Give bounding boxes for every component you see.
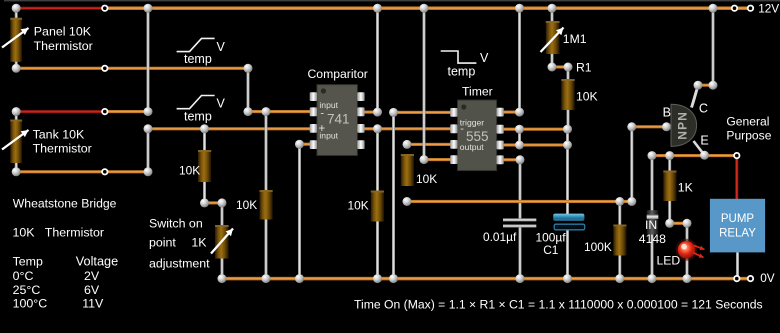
svg-text:11V: 11V <box>82 297 104 311</box>
junction base drive row <box>627 197 636 206</box>
svg-text:0.01µf: 0.01µf <box>483 230 517 244</box>
wire diode 4148 bottom lead to 0V rail <box>651 235 654 279</box>
svg-text:Wheatstone Bridge: Wheatstone Bridge <box>13 196 117 210</box>
resistor R1 10K <box>561 79 574 110</box>
terminal panel bottom <box>102 66 107 71</box>
wire +12V top rail <box>107 6 752 10</box>
wire 1K R8 top lead <box>668 156 671 171</box>
svg-text:Time On (Max) = 1.1 × R1 × C1: Time On (Max) = 1.1 × R1 × C1 = 1.1 x 11… <box>354 297 763 311</box>
relay K1 labels <box>719 213 756 240</box>
op-amp U1 pins right <box>357 92 364 149</box>
junction collector jog <box>694 81 703 90</box>
wire +12V rail red segment from panel thermistor to terminal <box>16 7 103 10</box>
wire base drive drop from y201 row <box>630 127 633 202</box>
wire 741 non-inverting input row <box>148 127 311 130</box>
svg-text:V: V <box>480 51 489 65</box>
junction 741 pin4 <box>295 140 304 149</box>
wire 555 pin1 ground stub <box>394 111 451 114</box>
junction 555 pin7 tie <box>515 125 524 134</box>
capacitor C1 100uf lower shell <box>554 224 585 230</box>
svg-text:point: point <box>149 235 176 249</box>
LED light arrows <box>694 246 705 251</box>
wire emitter row to relay terminal <box>652 154 734 157</box>
wire 1K pot jog <box>205 201 223 204</box>
resistor R4 10K (inverting divider) <box>260 190 273 220</box>
wire tank bottom riser to 741 + input row <box>147 129 150 172</box>
svg-text:Panel 10K: Panel 10K <box>34 25 92 39</box>
wire relay top red lead <box>735 159 738 200</box>
wire 555 pin1 drop to 0V rail <box>392 112 395 278</box>
wire 741 output load drop <box>376 129 379 191</box>
svg-text:10K: 10K <box>348 199 369 213</box>
wire 555 pin5 drop to 0.01uf cap <box>519 160 522 219</box>
wire 555 pin7 to pin6 tie <box>518 129 521 145</box>
junction rail to 1M1 <box>548 4 557 13</box>
svg-text:25°C: 25°C <box>13 283 41 297</box>
timer U2 555 labels <box>460 117 489 152</box>
wire 10K R3 bottom lead <box>203 182 206 203</box>
junction collector at +12V <box>709 4 718 13</box>
wire LED lead to 0V rail <box>686 223 689 278</box>
wire tank top to +12V drop node <box>107 110 148 113</box>
junction NPN base <box>662 122 671 131</box>
wire +12V drop to 555 pin8 <box>518 8 521 112</box>
resistor R3 10K (non-inv divider) <box>198 150 211 182</box>
junction 1K R8 top <box>665 151 674 160</box>
svg-text:Tank 10K: Tank 10K <box>33 127 85 141</box>
junction +12V rail / tank drop <box>144 4 153 13</box>
op-amp U1 pin1 mark <box>321 88 326 93</box>
wire NPN emitter slant lead <box>694 141 705 155</box>
junction 10K R5 at 0V <box>373 274 382 283</box>
svg-text:Thermistor: Thermistor <box>45 226 104 240</box>
junction 555 output / 10K R6 <box>403 140 412 149</box>
junction emitter node <box>700 151 709 160</box>
junction diode top <box>648 151 657 160</box>
svg-text:C: C <box>699 102 708 116</box>
diode D1 IN4148 body <box>647 210 659 234</box>
terminal relay feed <box>734 153 739 158</box>
wire 555 pin5 stub to 0.01uf <box>503 158 520 161</box>
wire bridge node to 741 inverting input <box>248 110 311 113</box>
junction 555 pin1 <box>389 108 398 117</box>
wire tank thermistor top lead <box>15 112 18 121</box>
junction R1 top <box>564 63 573 72</box>
svg-text:NPN: NPN <box>676 111 690 140</box>
wire 1K R8 bottom lead <box>668 201 671 223</box>
wire +12V drop to 741 pin7 <box>376 8 379 112</box>
capacitor C1 100uf body <box>553 214 584 221</box>
junction rail to 555 pin8 <box>515 4 524 13</box>
thermistor TH2 Tank 10K <box>10 120 22 164</box>
terminal panel top <box>102 6 107 11</box>
junction 1M1 bottom <box>548 63 557 72</box>
svg-text:2V: 2V <box>84 269 100 283</box>
svg-text:E: E <box>700 134 708 148</box>
timer U2 pins right <box>496 108 503 165</box>
thermistor TH2 arrow <box>2 130 29 150</box>
terminal tank bottom <box>102 169 107 174</box>
svg-text:1M1: 1M1 <box>563 32 587 46</box>
wire 741 pin7 V+ stub <box>364 111 378 114</box>
wire 1M1 top lead <box>551 8 554 21</box>
wire 1K pot top lead <box>221 203 224 225</box>
svg-text:10K: 10K <box>179 164 200 178</box>
graph falling temp/V symbol <box>441 51 477 63</box>
svg-text:Thermistor: Thermistor <box>33 141 92 155</box>
junction rail to 555 reset <box>420 4 429 13</box>
junction 100K top <box>615 197 624 206</box>
potentiometer VR1 arrow <box>211 229 233 254</box>
junction base row <box>627 122 636 131</box>
junction diode at 0V <box>648 274 657 283</box>
wire 555 pin4 reset stub <box>424 158 451 161</box>
svg-text:Purpose: Purpose <box>726 129 771 143</box>
wire C1 bottom to 0V rail <box>566 230 569 279</box>
wire 0.01uf cap to 0V rail <box>519 228 522 279</box>
svg-text:Thermistor: Thermistor <box>34 39 93 53</box>
svg-text:IN: IN <box>645 218 657 232</box>
svg-text:input: input <box>319 131 338 141</box>
thermistor TH1 Panel 10K <box>10 18 22 62</box>
svg-text:Switch on: Switch on <box>149 217 203 231</box>
wire tank thermistor bottom lead <box>15 161 18 172</box>
wire 100K top lead <box>618 202 621 225</box>
wire R1 10K top lead <box>567 67 570 79</box>
resistor R6 10K (555 output series) <box>401 154 414 186</box>
wire 555 output row to 100K and NPN base drive <box>407 200 632 203</box>
wire bridge node to 10K R4 top lead <box>265 112 268 190</box>
junction 0.01uf at 0V <box>516 274 525 283</box>
svg-text:6V: 6V <box>84 283 100 297</box>
wire R1 10K bottom lead <box>567 110 570 129</box>
wire 1K resistor to LED jog <box>670 222 687 225</box>
wire R1 chain to C1 top <box>566 129 569 214</box>
svg-text:12V: 12V <box>758 2 779 16</box>
junction 741 output <box>373 124 382 133</box>
wire 1K pot bottom lead to 0V rail <box>221 259 224 279</box>
svg-text:10K: 10K <box>416 172 437 186</box>
terminal 0V b <box>748 276 753 281</box>
svg-text:RELAY: RELAY <box>719 228 756 240</box>
terminal +12V a <box>732 6 737 11</box>
junction bridge mid node <box>244 107 253 116</box>
wire 555 pin8 Vcc stub <box>503 111 520 114</box>
op-amp U1 pins left <box>310 92 317 149</box>
svg-text:100°C: 100°C <box>13 297 48 311</box>
svg-text:Voltage: Voltage <box>76 255 118 269</box>
svg-text:10K: 10K <box>576 90 598 104</box>
svg-text:output: output <box>460 142 485 152</box>
junction collector riser <box>709 81 718 90</box>
resistor R7 100K <box>613 225 626 256</box>
svg-text:V: V <box>217 97 226 111</box>
LED D2 <box>676 239 698 261</box>
svg-text:100K: 100K <box>584 240 612 254</box>
junction 10K R6 bottom <box>403 197 412 206</box>
potentiometer VR1 1K switch-on point <box>215 225 229 259</box>
wire 555 output pin3 stub <box>407 143 451 146</box>
junction 555 reset <box>420 155 429 164</box>
wire relay bottom lead to 0V terminal <box>736 252 739 275</box>
wire 100K bottom lead to 0V rail <box>618 256 621 279</box>
wire panel thermistor bottom row y68 <box>16 67 248 70</box>
capacitor C2 0.01uf top plate <box>503 218 536 221</box>
junction LED top <box>683 219 692 228</box>
wire base row to NPN <box>632 125 667 128</box>
junction tank bottom <box>12 167 21 176</box>
wire 1M1 bottom lead <box>551 54 554 67</box>
junction 10K R4 at 0V <box>262 274 271 283</box>
wire panel bottom drop to bridge node <box>247 68 250 111</box>
terminal 0V a <box>734 276 739 281</box>
thermistor TH1 arrow <box>2 28 29 48</box>
terminal +12V b <box>748 6 753 11</box>
svg-text:Comparitor: Comparitor <box>308 67 368 81</box>
wire NPN collector slant lead <box>692 86 699 108</box>
svg-text:LED: LED <box>657 254 681 268</box>
wire 741 pin4 V- stub <box>300 143 311 146</box>
svg-text:10K: 10K <box>13 226 36 240</box>
svg-text:Timer: Timer <box>462 85 493 99</box>
wire 741 pin4 drop to 0V rail <box>298 144 301 278</box>
transistor Q1 NPN body <box>671 104 697 146</box>
svg-text:10K: 10K <box>236 198 257 212</box>
junction C1 at 0V <box>563 274 572 283</box>
svg-text:0°C: 0°C <box>13 269 34 283</box>
potentiometer VR2 arrow <box>541 28 564 53</box>
svg-text:V: V <box>217 40 226 54</box>
wire 741 output to 555 trigger <box>364 127 451 130</box>
svg-text:temp: temp <box>448 65 476 79</box>
svg-text:1K: 1K <box>191 235 207 249</box>
junction 10K R4 tap <box>262 107 271 116</box>
resistor R8 1K <box>663 171 676 202</box>
wire 10K R3 top lead <box>203 129 206 150</box>
svg-text:temp: temp <box>184 52 212 66</box>
svg-text:0V: 0V <box>760 271 775 285</box>
wire panel thermistor bottom lead <box>15 59 18 68</box>
relay K1 PUMP RELAY box <box>710 199 765 253</box>
junction tank bottom row <box>144 167 153 176</box>
wire +12V rail drop to tank top node <box>147 8 150 111</box>
capacitor C2 0.01uf bottom plate <box>503 224 536 227</box>
wire 1M1 to R1 jog <box>552 65 568 68</box>
potentiometer VR2 1M1 <box>546 21 560 54</box>
junction 10K R3 tap <box>200 124 209 133</box>
svg-text:General: General <box>726 114 769 128</box>
timer U2 pin1 mark <box>461 104 466 109</box>
svg-text:1K: 1K <box>678 181 693 195</box>
terminal tank top <box>102 109 107 114</box>
wire 10K R4 bottom lead to 0V rail <box>265 220 268 279</box>
svg-text:B: B <box>663 106 671 120</box>
wire collector jog to +12V rail <box>698 84 713 87</box>
resistor R5 10K (741 output load) <box>371 191 384 222</box>
op-amp U1 741 body <box>317 85 358 156</box>
junction LED at 0V <box>683 274 692 283</box>
op-amp U1 741 labels <box>319 100 350 140</box>
wire +12V drop to 555 reset pin4 <box>423 8 426 159</box>
timer U2 pins left <box>450 108 457 164</box>
border top edge <box>4 0 780 1</box>
junction 741 + input row <box>144 124 153 133</box>
svg-text:-: - <box>460 123 464 135</box>
wire tank thermistor top red segment <box>16 110 103 113</box>
svg-text:temp: temp <box>184 110 212 124</box>
svg-text:-: - <box>320 108 324 120</box>
svg-text:Temp: Temp <box>13 255 43 269</box>
junction 741 pin4 at 0V <box>295 274 304 283</box>
graph rising temp/V symbol 2 <box>177 96 215 109</box>
svg-text:PUMP: PUMP <box>721 213 755 225</box>
wire 10K R5 bottom lead to 0V rail <box>376 222 379 279</box>
junction R1 bottom / pin7 <box>563 125 572 134</box>
svg-text:C1: C1 <box>543 243 559 257</box>
junction panel bottom <box>12 64 21 73</box>
junction panel top at +12V <box>12 4 21 13</box>
text temperature voltage table <box>13 255 119 311</box>
junction 100K at 0V <box>615 274 624 283</box>
junction 555 pin1 at 0V <box>389 274 398 283</box>
junction 1K pot top <box>218 198 227 207</box>
junction 1K pot at 0V <box>218 274 227 283</box>
svg-text:R1: R1 <box>576 61 592 75</box>
junction tank top <box>12 107 21 116</box>
wire tank thermistor bottom row <box>16 170 148 173</box>
wire panel thermistor top lead <box>15 8 18 19</box>
wire 0V bottom rail <box>222 277 753 281</box>
wire 555 pin6 to C1 top <box>503 143 568 146</box>
svg-text:adjustment: adjustment <box>149 256 210 270</box>
junction 741 pin7 <box>373 108 382 117</box>
wire 555 pin7 to R1 chain <box>503 128 568 131</box>
junction C1 / pin6 <box>563 141 572 150</box>
junction 555 pin5 <box>516 155 525 164</box>
wire collector riser to +12V rail <box>712 8 715 85</box>
timer U2 555 body <box>458 100 497 171</box>
junction panel bottom drop <box>244 64 253 73</box>
junction 10K R3 bottom <box>200 198 209 207</box>
svg-text:4148: 4148 <box>639 232 666 246</box>
graph rising temp/V symbol 1 <box>177 38 215 51</box>
wire diode 4148 top lead <box>651 156 654 211</box>
junction tank top node <box>144 107 153 116</box>
junction 555 pin6 tie <box>515 141 524 150</box>
svg-text:741: 741 <box>327 111 350 126</box>
junction rail to 741 pin7 <box>373 4 382 13</box>
junction 1K R8 bottom <box>665 219 674 228</box>
junction 555 pin8 <box>515 108 524 117</box>
